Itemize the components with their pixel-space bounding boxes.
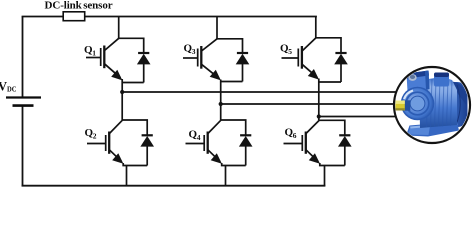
node C junction dot — [317, 114, 321, 118]
node B junction dot — [219, 102, 223, 106]
svg-text:5: 5 — [288, 47, 292, 56]
wire: phase B line to motor — [221, 103, 397, 105]
wire: Q2 emitter to bottom rail — [126, 166, 128, 186]
label Q6 — [285, 127, 297, 140]
IGBT Q3 — [183, 39, 221, 81]
diode D1 — [137, 53, 151, 83]
label Q2 — [85, 127, 97, 140]
wire: node B down to Q4 collector junction — [220, 104, 222, 120]
svg-text:1: 1 — [92, 48, 96, 57]
wire: Q2 collector-diode branch — [122, 120, 147, 135]
wire: leg2 top drop from rail — [216, 17, 218, 39]
svg-text:V: V — [0, 79, 7, 93]
motor front disc — [401, 87, 435, 121]
IGBT Q1 — [86, 38, 122, 80]
wire: D5 anode return to emitter — [319, 81, 341, 83]
wire: Q4 emitter to bottom rail — [225, 166, 227, 186]
wire: left vertical from battery to bottom rail — [22, 106, 24, 186]
wire: left vertical from top rail to battery — [22, 17, 24, 97]
node A junction dot — [120, 90, 124, 94]
diode D3 — [236, 53, 250, 82]
svg-text:3: 3 — [192, 47, 196, 56]
IGBT Q6 — [284, 121, 321, 164]
diode D6 — [338, 135, 352, 165]
wire: leg1 top drop from rail — [118, 17, 120, 39]
wire: Q6 emitter to bottom rail corner — [324, 166, 326, 186]
wire: bottom DC rail — [23, 185, 325, 187]
motor terminal box — [407, 71, 430, 92]
wire: Q4 collector-diode branch — [221, 120, 246, 135]
diode D5 — [334, 53, 348, 82]
wire: leg3 top drop from rail end — [315, 17, 317, 38]
svg-text:DC: DC — [7, 85, 17, 94]
wire: node C down to Q6 collector junction — [318, 117, 320, 121]
motor shaft — [405, 100, 411, 110]
wire: Q3 emitter down to phase node B — [220, 80, 222, 105]
DC-link sensor box — [45, 0, 113, 21]
svg-text:4: 4 — [197, 133, 201, 142]
wire: D2 anode return to emitter — [123, 163, 147, 166]
voltage source V_DC battery — [0, 79, 41, 105]
wire: Q5 collector-diode branch — [316, 38, 341, 53]
motor body with fins — [419, 78, 457, 128]
label Q3 — [184, 43, 196, 56]
motor M (induction machine in circle) — [394, 67, 470, 143]
wire: Q6 collector-diode branch — [319, 120, 345, 135]
label Q4 — [189, 129, 201, 142]
IGBT Q5 — [282, 38, 320, 80]
wire: phase C line to motor — [319, 116, 397, 118]
label Q5 — [280, 43, 292, 56]
IGBT Q2 — [87, 120, 123, 164]
diode D2 — [140, 135, 154, 165]
wire: Q3 collector-diode branch — [217, 39, 243, 53]
wire: Q5 emitter down to phase node C — [318, 79, 320, 117]
wire: node A down to Q2 collector junction — [121, 92, 123, 120]
wire: Q1 emitter down to phase node A — [121, 79, 123, 92]
motor base — [406, 122, 459, 137]
wire: D1 anode return to emitter — [122, 82, 144, 84]
wire: Q1 collector-diode branch — [119, 38, 144, 53]
wire: D6 anode return to emitter — [320, 163, 345, 166]
label Q1 — [84, 44, 96, 57]
wire: D4 anode return to emitter — [222, 163, 246, 166]
svg-text:2: 2 — [93, 131, 97, 140]
wire: D3 anode return to emitter — [221, 81, 243, 83]
IGBT Q4 — [186, 120, 222, 164]
motor fan cover — [446, 82, 468, 127]
svg-text:DC-linksensor: DC-linksensor — [45, 0, 113, 12]
svg-text:6: 6 — [293, 131, 297, 140]
wire: top DC rail — [23, 16, 317, 18]
wire: phase A line to motor — [122, 91, 397, 93]
diode D4 — [239, 135, 253, 165]
